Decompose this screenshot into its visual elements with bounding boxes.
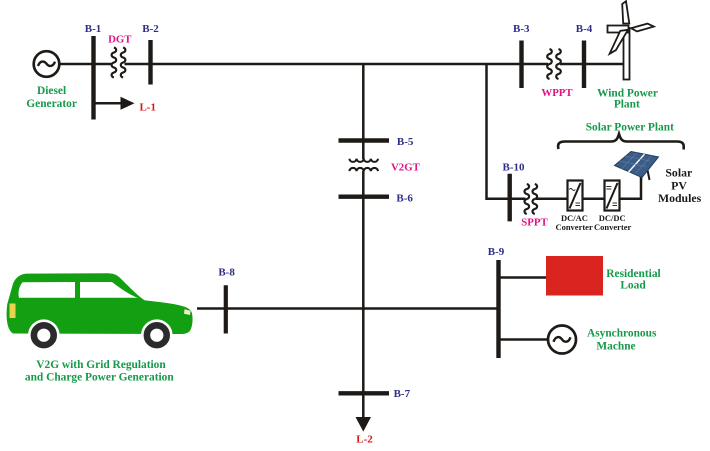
svg-text:Load: Load: [620, 280, 646, 292]
wire car to B-9: [197, 307, 499, 310]
svg-text:DGT: DGT: [108, 34, 132, 46]
svg-text:B-2: B-2: [142, 23, 159, 35]
wire L-1 tap from B-1: [94, 102, 122, 105]
svg-text:B-5: B-5: [397, 136, 414, 148]
svg-text:Modules: Modules: [658, 191, 702, 205]
svg-text:Converter: Converter: [555, 222, 593, 232]
svg-text:Residential: Residential: [606, 268, 660, 280]
bus B-7: [339, 391, 390, 395]
label Solar PV Modules: [658, 166, 702, 206]
svg-text:B-9: B-9: [488, 246, 505, 258]
bus B-9: [496, 260, 500, 358]
wire WPPT to wind turbine: [560, 63, 624, 66]
svg-text:B-3: B-3: [513, 23, 530, 35]
label Wind Power Plant: [597, 88, 658, 111]
svg-text:V2GT: V2GT: [391, 162, 421, 174]
svg-text:Machne: Machne: [596, 341, 635, 353]
label Asynchronous Machne: [587, 328, 657, 353]
transformer SPPT coils: [524, 184, 537, 214]
label Diesel Generator: [26, 85, 77, 110]
wire B-9 to asynchronous machine: [499, 338, 548, 341]
solar PV module panel: [615, 152, 659, 181]
svg-text:Generator: Generator: [26, 98, 77, 110]
svg-text:V2G with Grid Regulation: V2G with Grid Regulation: [36, 359, 166, 371]
svg-text:B-6: B-6: [396, 193, 413, 205]
generator G diesel circle: [34, 51, 60, 77]
residential load block: [546, 256, 603, 296]
transformer DGT coils: [112, 48, 126, 78]
svg-text:WPPT: WPPT: [541, 87, 573, 99]
svg-text:and Charge Power Generation: and Charge Power Generation: [25, 372, 174, 384]
bus B-1: [91, 36, 95, 120]
bus B-8: [224, 285, 228, 333]
wire generator to DGT: [60, 63, 113, 66]
bus B-4: [582, 41, 586, 89]
wire B-9 to residential load: [499, 276, 547, 279]
label DC/AC Converter: [555, 213, 593, 232]
svg-text:L-1: L-1: [139, 102, 156, 114]
svg-text:B-8: B-8: [218, 267, 235, 279]
load L-1 arrowhead: [121, 97, 135, 110]
svg-text:L-2: L-2: [356, 434, 373, 446]
svg-text:Solar: Solar: [665, 166, 692, 180]
label V2G with Grid Regulation and Charge Power Generation: [25, 359, 174, 384]
converter U2 DC/DC box: [605, 181, 620, 211]
wire V2GT to B-6 and down to B-7: [362, 171, 365, 393]
converter U1 DC/AC box: [568, 181, 583, 211]
wire DGT to WPPT: [125, 63, 549, 66]
bus B-6: [339, 194, 390, 198]
wind turbine: [608, 1, 654, 79]
svg-text:Plant: Plant: [614, 99, 640, 111]
vehicle V2G car: [7, 273, 193, 351]
bus B-2: [148, 40, 152, 85]
asynchronous machine M circle: [548, 326, 576, 354]
load L-2 arrowhead: [356, 417, 372, 432]
label Residential Load: [606, 268, 660, 292]
wire right vertical drop to solar branch: [487, 64, 526, 199]
transformer WPPT coils: [547, 49, 561, 79]
bus B-5: [339, 138, 390, 142]
label DC/DC Converter: [594, 213, 632, 232]
svg-text:Converter: Converter: [594, 222, 632, 232]
brace over solar plant: [558, 134, 684, 150]
svg-text:SPPT: SPPT: [521, 217, 548, 229]
svg-text:B-7: B-7: [394, 388, 411, 400]
svg-text:B-4: B-4: [576, 23, 593, 35]
wire B-7 down to L-2 arrow: [362, 393, 365, 419]
wire DC/AC to DC/DC: [583, 198, 605, 201]
svg-text:B-1: B-1: [85, 23, 102, 35]
bus B-10: [508, 174, 512, 222]
svg-text:Diesel: Diesel: [37, 85, 66, 97]
transformer V2GT coils: [349, 159, 378, 171]
wire SPPT to DC/AC converter: [536, 198, 567, 201]
svg-text:Asynchronous: Asynchronous: [587, 328, 657, 340]
wire DC/DC to PV module: [620, 175, 642, 199]
svg-text:Solar Power Plant: Solar Power Plant: [586, 122, 674, 134]
wire center vertical drop to B-5: [362, 64, 365, 159]
bus B-3: [519, 41, 523, 89]
svg-text:B-10: B-10: [503, 162, 526, 174]
